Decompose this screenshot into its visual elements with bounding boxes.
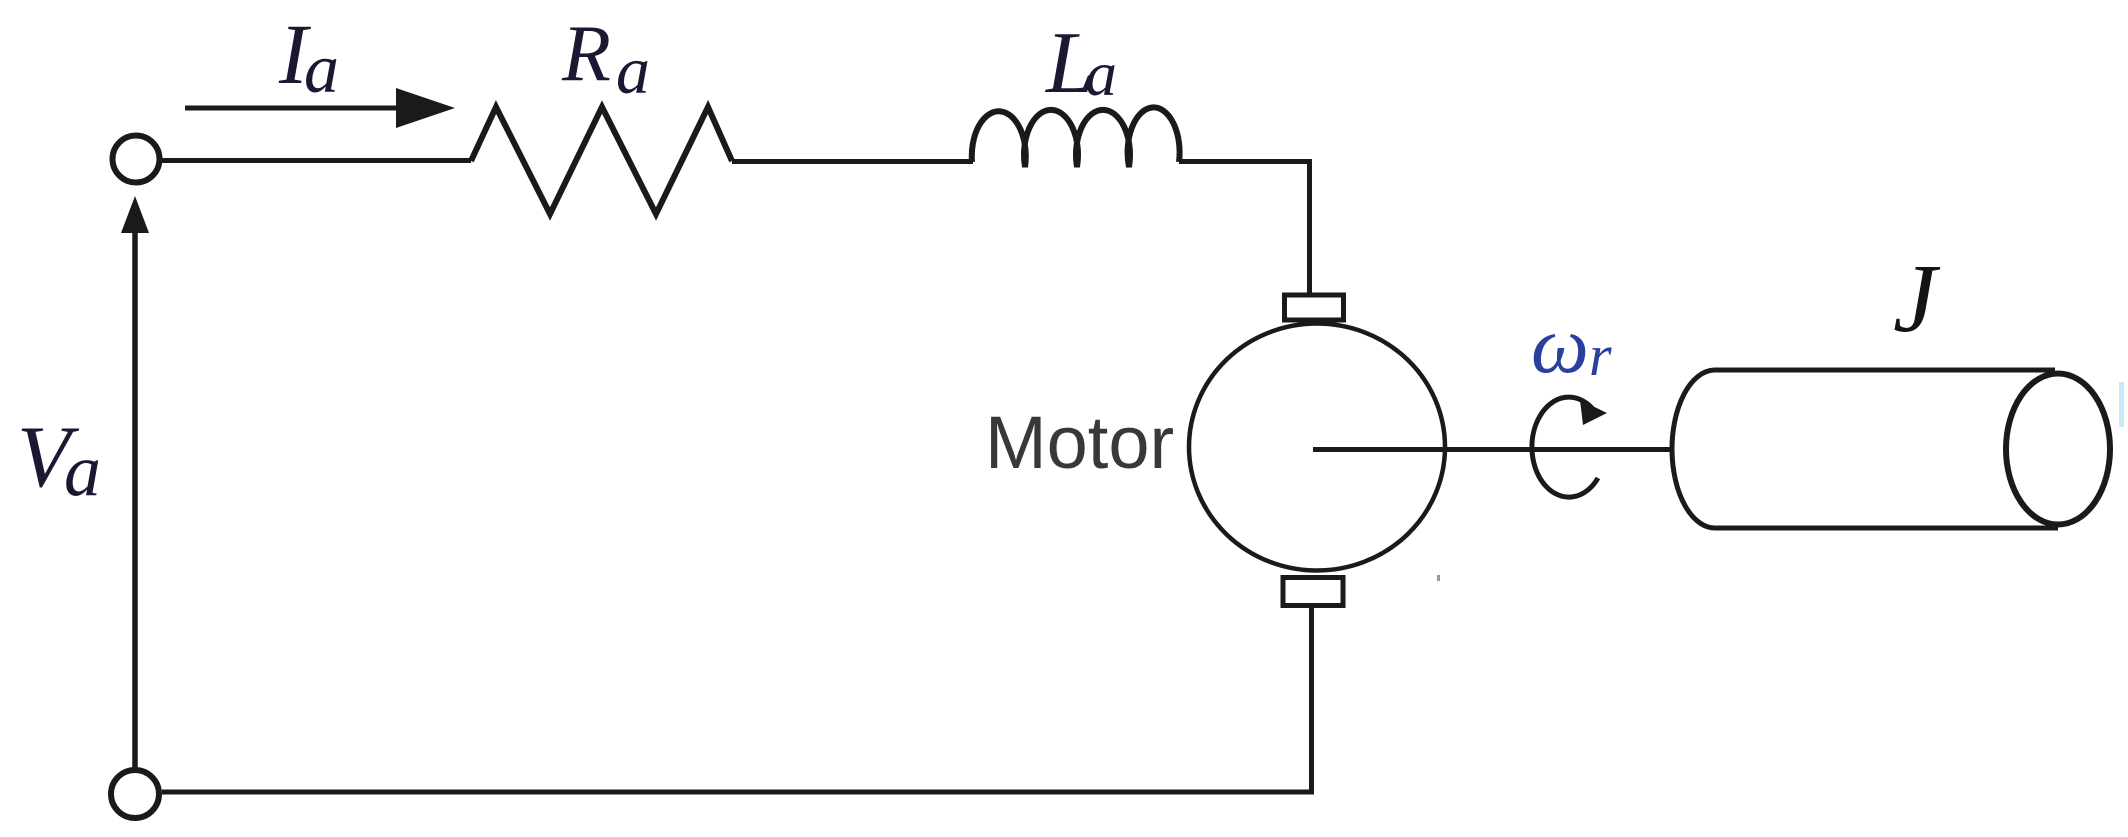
wire top from + terminal to resistor [162,158,471,163]
svg-text:a: a [304,31,339,108]
shaft [1313,447,1672,452]
svg-text:Motor: Motor [985,401,1174,484]
svg-text:R: R [561,10,611,98]
terminal node - (bottom-left) [111,770,159,818]
brush (bottom) [1283,578,1343,606]
source arrow Va (pointing up) [121,196,149,768]
motor M1 (circle) [1189,324,1445,571]
inductor La [972,107,1180,167]
wire between resistor and inductor [732,159,973,164]
svg-text:J: J [1893,245,1941,353]
terminal node + (top-left) [113,136,160,183]
brush (top) [1285,295,1344,320]
wire from motor bottom brush down and left to - terminal [162,605,1312,792]
svg-text:r: r [1589,323,1612,388]
wire from inductor to motor top brush [1179,162,1310,294]
current arrow Ia [185,88,455,128]
artifact tick [1437,575,1440,581]
rotation arrow omega_r [1532,397,1607,497]
inertia cylinder J [1672,370,2110,528]
resistor Ra [471,107,732,214]
svg-text:a: a [616,32,650,108]
svg-text:ω: ω [1531,299,1589,390]
artifact streak (light blue, right edge) [2119,382,2124,427]
svg-text:a: a [1085,38,1117,109]
svg-text:a: a [64,430,101,512]
